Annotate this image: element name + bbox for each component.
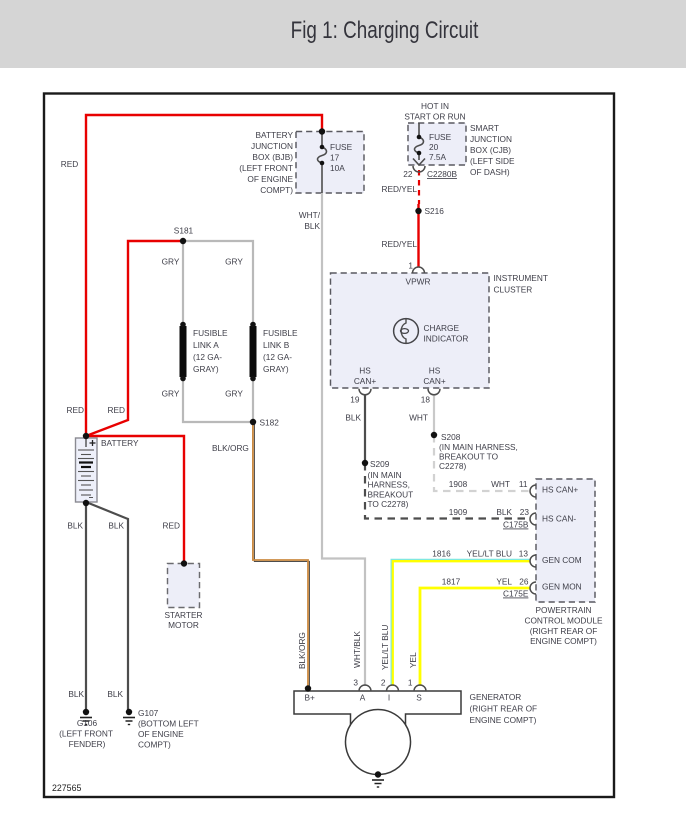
svg-text:C2280B: C2280B <box>427 169 457 179</box>
svg-text:BOX (CJB): BOX (CJB) <box>470 145 511 155</box>
svg-text:START OR RUN: START OR RUN <box>404 112 465 122</box>
svg-text:GRY: GRY <box>162 389 180 399</box>
svg-text:Fig 1: Charging Circuit: Fig 1: Charging Circuit <box>291 16 479 44</box>
svg-text:23: 23 <box>520 507 530 517</box>
svg-text:JUNCTION: JUNCTION <box>251 141 293 151</box>
svg-text:(RIGHT REAR OF: (RIGHT REAR OF <box>470 704 538 714</box>
svg-text:JUNCTION: JUNCTION <box>470 134 512 144</box>
svg-text:227565: 227565 <box>52 783 81 793</box>
svg-text:ENGINE COMPT): ENGINE COMPT) <box>470 715 537 725</box>
svg-text:BOX (BJB): BOX (BJB) <box>252 152 293 162</box>
svg-text:WHT/BLK: WHT/BLK <box>352 631 362 668</box>
svg-text:OF DASH): OF DASH) <box>470 167 510 177</box>
svg-text:1909: 1909 <box>449 507 468 517</box>
svg-text:HS CAN+: HS CAN+ <box>542 485 578 495</box>
svg-text:(LEFT FRONT: (LEFT FRONT <box>59 729 113 739</box>
svg-text:(IN MAIN HARNESS,: (IN MAIN HARNESS, <box>439 442 518 452</box>
svg-text:17: 17 <box>330 153 340 163</box>
svg-text:POWERTRAIN: POWERTRAIN <box>535 605 591 615</box>
svg-text:7.5A: 7.5A <box>429 152 447 162</box>
svg-text:BREAKOUT TO: BREAKOUT TO <box>439 452 499 462</box>
svg-text:FUSIBLE: FUSIBLE <box>263 328 298 338</box>
svg-text:RED: RED <box>66 405 84 415</box>
svg-text:(BOTTOM LEFT: (BOTTOM LEFT <box>138 719 199 729</box>
svg-text:1: 1 <box>408 678 413 688</box>
svg-text:YEL/LT BLU: YEL/LT BLU <box>467 549 512 559</box>
svg-text:WHT: WHT <box>491 479 510 489</box>
svg-text:C175E: C175E <box>503 589 529 599</box>
svg-text:ENGINE COMPT): ENGINE COMPT) <box>530 636 597 646</box>
svg-text:S: S <box>416 693 422 703</box>
svg-text:HS: HS <box>429 366 441 376</box>
svg-text:C2278): C2278) <box>439 461 466 471</box>
svg-text:(RIGHT REAR OF: (RIGHT REAR OF <box>530 626 598 636</box>
svg-text:FENDER): FENDER) <box>69 739 106 749</box>
svg-text:13: 13 <box>519 549 529 559</box>
svg-text:BLK: BLK <box>67 521 83 531</box>
svg-text:GRY: GRY <box>225 389 243 399</box>
svg-text:19: 19 <box>350 395 360 405</box>
svg-text:(IN MAIN: (IN MAIN <box>368 470 402 480</box>
svg-text:WHT: WHT <box>409 413 428 423</box>
svg-text:INDICATOR: INDICATOR <box>424 334 469 344</box>
svg-text:RED/YEL: RED/YEL <box>381 239 417 249</box>
svg-text:S181: S181 <box>174 226 194 236</box>
svg-text:RED: RED <box>162 521 180 531</box>
svg-text:BLK: BLK <box>496 507 512 517</box>
svg-text:GENERATOR: GENERATOR <box>470 692 522 702</box>
svg-text:22: 22 <box>403 169 413 179</box>
svg-text:BLK: BLK <box>68 689 84 699</box>
svg-text:CAN+: CAN+ <box>354 376 377 386</box>
svg-text:1816: 1816 <box>432 549 451 559</box>
svg-text:CONTROL MODULE: CONTROL MODULE <box>524 615 603 625</box>
svg-text:MOTOR: MOTOR <box>168 620 199 630</box>
svg-text:SMART: SMART <box>470 123 499 133</box>
svg-text:BLK: BLK <box>108 521 124 531</box>
svg-text:BLK: BLK <box>304 221 320 231</box>
svg-text:CAN+: CAN+ <box>423 376 446 386</box>
svg-text:BLK: BLK <box>107 689 123 699</box>
svg-text:RED: RED <box>61 159 79 169</box>
svg-text:BREAKOUT: BREAKOUT <box>368 489 414 499</box>
svg-text:BLK/ORG: BLK/ORG <box>297 632 307 669</box>
svg-text:BATTERY: BATTERY <box>256 130 294 140</box>
svg-text:A: A <box>360 693 366 703</box>
svg-text:2: 2 <box>381 678 386 688</box>
svg-text:LINK B: LINK B <box>263 340 290 350</box>
svg-text:1: 1 <box>408 261 413 271</box>
svg-text:HARNESS,: HARNESS, <box>368 480 410 490</box>
svg-text:1817: 1817 <box>442 577 461 587</box>
svg-text:OF ENGINE: OF ENGINE <box>247 174 293 184</box>
svg-text:VPWR: VPWR <box>406 277 431 287</box>
svg-text:GRY: GRY <box>225 257 243 267</box>
svg-text:(12 GA-: (12 GA- <box>193 352 222 362</box>
svg-text:(12 GA-: (12 GA- <box>263 352 292 362</box>
svg-text:BLK: BLK <box>345 413 361 423</box>
svg-text:18: 18 <box>421 395 431 405</box>
svg-text:CHARGE: CHARGE <box>424 323 460 333</box>
svg-text:WHT/: WHT/ <box>299 210 321 220</box>
svg-text:YEL/LT BLU: YEL/LT BLU <box>380 625 390 670</box>
svg-text:GEN MON: GEN MON <box>542 582 582 592</box>
svg-text:GRAY): GRAY) <box>193 364 219 374</box>
svg-text:LINK A: LINK A <box>193 340 219 350</box>
svg-text:INSTRUMENT: INSTRUMENT <box>494 273 548 283</box>
svg-text:I: I <box>388 693 390 703</box>
svg-text:(LEFT FRONT: (LEFT FRONT <box>239 163 293 173</box>
svg-text:GRY: GRY <box>162 257 180 267</box>
svg-text:1908: 1908 <box>449 479 468 489</box>
svg-text:G106: G106 <box>77 718 98 728</box>
svg-text:HOT IN: HOT IN <box>421 101 449 111</box>
svg-text:RED: RED <box>107 405 125 415</box>
svg-text:20: 20 <box>429 142 439 152</box>
svg-text:COMPT): COMPT) <box>138 740 171 750</box>
svg-text:B+: B+ <box>305 693 316 703</box>
svg-text:GRAY): GRAY) <box>263 364 289 374</box>
svg-text:GEN COM: GEN COM <box>542 555 582 565</box>
svg-text:TO C2278): TO C2278) <box>368 499 409 509</box>
svg-text:OF ENGINE: OF ENGINE <box>138 729 184 739</box>
svg-text:(LEFT SIDE: (LEFT SIDE <box>470 156 515 166</box>
svg-text:3: 3 <box>353 678 358 688</box>
svg-text:CLUSTER: CLUSTER <box>494 285 533 295</box>
svg-text:S209: S209 <box>370 459 390 469</box>
svg-text:G107: G107 <box>138 708 159 718</box>
svg-text:S208: S208 <box>441 432 461 442</box>
svg-text:C175B: C175B <box>503 520 529 530</box>
svg-text:RED/YEL: RED/YEL <box>381 184 417 194</box>
svg-text:S216: S216 <box>425 206 445 216</box>
svg-text:FUSE: FUSE <box>429 132 452 142</box>
svg-text:BATTERY: BATTERY <box>101 438 139 448</box>
svg-text:FUSIBLE: FUSIBLE <box>193 328 228 338</box>
svg-text:YEL: YEL <box>408 652 418 668</box>
svg-text:S182: S182 <box>260 418 280 428</box>
svg-text:HS: HS <box>359 366 371 376</box>
svg-text:YEL: YEL <box>496 577 512 587</box>
svg-text:26: 26 <box>519 577 529 587</box>
svg-text:HS CAN-: HS CAN- <box>542 514 576 524</box>
svg-text:FUSE: FUSE <box>330 142 353 152</box>
svg-text:STARTER: STARTER <box>165 610 203 620</box>
svg-text:10A: 10A <box>330 163 345 173</box>
svg-text:11: 11 <box>519 479 528 489</box>
svg-text:COMPT): COMPT) <box>260 185 293 195</box>
svg-text:BLK/ORG: BLK/ORG <box>212 443 249 453</box>
